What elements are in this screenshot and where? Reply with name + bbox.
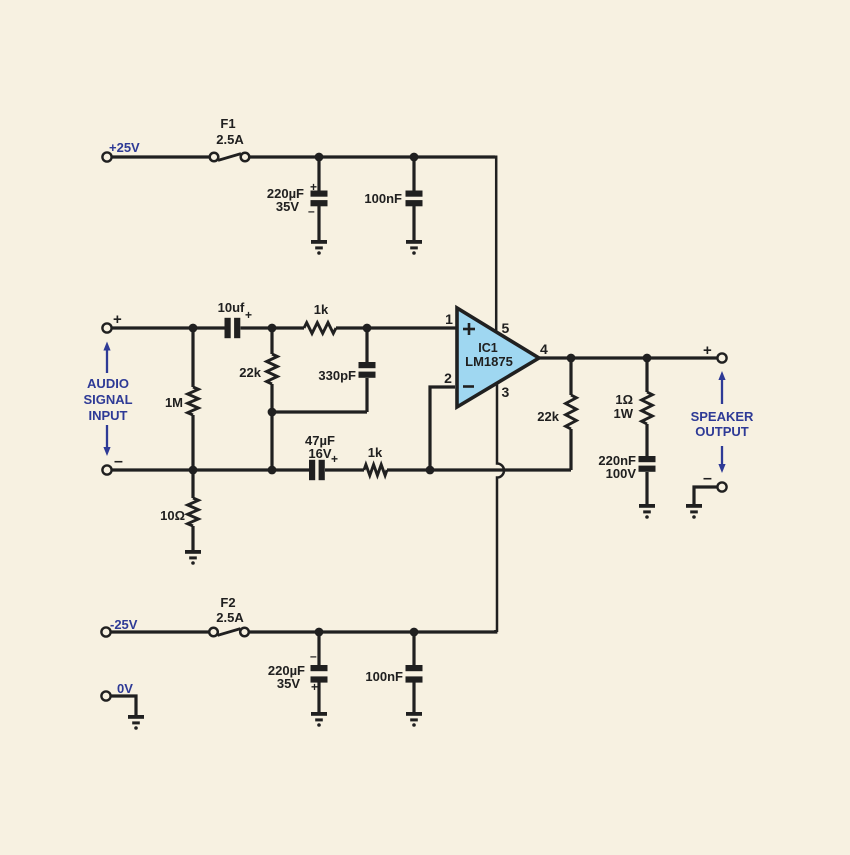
wire input- to C5: [112, 468, 309, 471]
svg-text:+: +: [113, 311, 122, 328]
ground below R7: [185, 550, 201, 565]
junction input-/R7: [189, 466, 198, 475]
junction pin2 node: [426, 466, 435, 475]
svg-text:+: +: [331, 452, 338, 466]
capacitor C7 220uF 35V: [311, 665, 328, 683]
junction bottom rail / C7: [315, 628, 324, 637]
wire R7 top lead: [191, 470, 194, 498]
svg-text:IC1: IC1: [478, 341, 498, 355]
ground below speaker -: [686, 504, 702, 519]
svg-text:INPUT: INPUT: [89, 408, 128, 423]
svg-text:22k: 22k: [537, 409, 559, 424]
terminal 0V: [101, 691, 110, 700]
junction C3/R3: [268, 324, 277, 333]
input + mark: [113, 311, 122, 328]
svg-text:4: 4: [540, 341, 548, 357]
C3 polarity mark: [245, 308, 252, 322]
fuse F2 value label: [216, 595, 244, 625]
pin 5 label: [502, 320, 510, 336]
fuse F2: [209, 628, 249, 637]
capacitor C2 100nF: [406, 191, 423, 207]
wire C5 to R4: [325, 468, 364, 471]
junction R2/C4: [363, 324, 372, 333]
R1 value label 1M: [165, 395, 183, 410]
node SPEAKER OUTPUT label: [691, 409, 754, 439]
junction top rail / C2: [410, 153, 419, 162]
capacitor C6 220nF 100V: [639, 456, 656, 472]
svg-text:100nF: 100nF: [364, 191, 402, 206]
resistor R5 22k feedback: [566, 358, 577, 470]
svg-text:+: +: [310, 180, 317, 194]
svg-text:1k: 1k: [314, 302, 329, 317]
terminal speaker -: [717, 482, 726, 491]
wire speaker - to ground: [694, 487, 717, 504]
wire C4 bottom lead: [365, 378, 368, 412]
svg-text:-25V: -25V: [110, 617, 138, 632]
svg-text:3: 3: [502, 384, 510, 400]
wire R1 bottom lead: [191, 415, 194, 470]
svg-text:+25V: +25V: [109, 140, 140, 155]
terminal speaker +: [717, 353, 726, 362]
svg-text:330pF: 330pF: [318, 368, 356, 383]
svg-text:0V: 0V: [117, 681, 133, 696]
R5 value label 22k: [537, 409, 559, 424]
junction bottom rail / C8: [410, 628, 419, 637]
svg-text:–: –: [114, 453, 123, 470]
C1 polarity marks: [308, 180, 317, 218]
wire pin2 node up to pin 2: [430, 387, 455, 470]
svg-text:F1: F1: [220, 116, 235, 131]
wire R1 top lead: [191, 328, 194, 387]
wire R2 to pin 1: [336, 326, 456, 329]
wire C6 bottom lead: [645, 472, 648, 504]
node 0V label: [117, 681, 133, 696]
speaker - mark: [703, 470, 712, 487]
pin 1 label: [445, 311, 453, 327]
svg-text:22k: 22k: [239, 365, 261, 380]
fuse F1: [210, 153, 250, 162]
svg-text:16V: 16V: [308, 446, 331, 461]
IC1 reference label: [465, 341, 513, 369]
wire C3 to R2: [241, 326, 305, 329]
wire R3 top lead: [270, 328, 273, 354]
wire C4 top lead: [365, 328, 368, 363]
svg-text:1M: 1M: [165, 395, 183, 410]
capacitor C1 220uF 35V: [311, 191, 328, 207]
wire F1 to pin5 corner: [250, 155, 496, 158]
svg-text:AUDIO: AUDIO: [87, 376, 129, 391]
wire 0V to ground: [111, 696, 136, 716]
pin 4 label: [540, 341, 548, 357]
terminal input -: [102, 465, 111, 474]
svg-text:+: +: [245, 308, 252, 322]
wire C8 top lead: [412, 632, 415, 666]
resistor R3 22k: [267, 354, 278, 384]
capacitor C8 100nF: [406, 665, 423, 683]
resistor R7 10ohm: [188, 498, 199, 526]
capacitor C4 330pF: [359, 362, 376, 378]
wire V+ supply down to pin 5: [495, 156, 498, 332]
C5 polarity mark: [331, 452, 338, 466]
speaker output arrows: [718, 371, 725, 473]
node AUDIO SIGNAL INPUT label: [83, 376, 132, 423]
node -25V label: [110, 617, 138, 632]
wire input+ to C3: [112, 326, 225, 329]
junction input-/R3: [268, 466, 277, 475]
svg-text:LM1875: LM1875: [465, 354, 513, 369]
svg-text:10Ω: 10Ω: [160, 508, 185, 523]
ground below C6: [639, 504, 655, 519]
svg-text:2: 2: [444, 370, 452, 386]
wire V- supply pin 3 down with hop: [497, 384, 504, 632]
fuse F1 value label: [216, 116, 244, 147]
resistor R4 1k: [364, 465, 387, 476]
C2 value label 100nF: [364, 191, 402, 206]
svg-text:1k: 1k: [368, 445, 383, 460]
pin 3 label: [502, 384, 510, 400]
resistor R6 1ohm 1W: [642, 358, 653, 457]
svg-text:2.5A: 2.5A: [216, 132, 244, 147]
wire C2 bottom lead: [412, 206, 415, 240]
svg-text:+: +: [311, 680, 318, 694]
wire C7 top lead: [317, 632, 320, 666]
junction R3/C4 bottom: [268, 408, 277, 417]
terminal -25V: [101, 627, 110, 636]
wire C8 bottom lead: [412, 682, 415, 712]
svg-text:F2: F2: [220, 595, 235, 610]
svg-text:SPEAKER: SPEAKER: [691, 409, 754, 424]
wire C7 bottom lead: [317, 682, 320, 712]
svg-text:1Ω: 1Ω: [615, 392, 633, 407]
input - mark: [114, 453, 123, 470]
C8 value label 100nF: [365, 669, 403, 684]
capacitor C3 10uf: [225, 318, 241, 338]
ground below C8: [406, 712, 422, 727]
ground below C7: [311, 712, 327, 727]
ground below 0V: [128, 715, 144, 730]
junction top rail / C1: [315, 153, 324, 162]
wire +25V to fuse F1: [112, 155, 210, 158]
wire C2 top lead: [412, 157, 415, 192]
wire F2 to pin3 corner: [249, 630, 496, 632]
svg-text:OUTPUT: OUTPUT: [695, 424, 749, 439]
terminal +25V: [102, 152, 111, 161]
pin 2 label: [444, 370, 452, 386]
op-amp IC1 LM1875: [457, 308, 539, 407]
wire R7 bottom lead: [191, 526, 194, 551]
C5 value label 47uF 16V: [305, 433, 335, 461]
R2 value label 1k: [314, 302, 329, 317]
R7 value label 10ohm: [160, 508, 185, 523]
audio input arrows: [103, 342, 110, 457]
speaker + mark: [703, 342, 712, 359]
svg-text:100nF: 100nF: [365, 669, 403, 684]
ground below C2: [406, 240, 422, 255]
wire R4 to pin2 node: [387, 468, 430, 471]
resistor R1 1M: [188, 387, 199, 415]
svg-text:–: –: [310, 649, 317, 663]
junction output/R5: [567, 354, 576, 363]
resistor R2 1k: [304, 323, 336, 334]
svg-text:2.5A: 2.5A: [216, 610, 244, 625]
svg-text:10uf: 10uf: [218, 300, 245, 315]
capacitor C5 47uF 16V: [309, 460, 325, 480]
node +25V label: [109, 140, 140, 155]
svg-text:SIGNAL: SIGNAL: [83, 392, 132, 407]
svg-text:35V: 35V: [276, 199, 299, 214]
svg-text:1: 1: [445, 311, 453, 327]
wire R3 bottom lead: [270, 384, 273, 470]
C4 value label 330pF: [318, 368, 356, 383]
C1 value label 220uF 35V: [267, 186, 304, 214]
svg-text:+: +: [703, 342, 712, 359]
C6 value label 220nF 100V: [598, 453, 636, 481]
C3 value label 10uf: [218, 300, 245, 315]
R3 value label 22k: [239, 365, 261, 380]
svg-text:35V: 35V: [277, 676, 300, 691]
wire feedback bottom to R5: [430, 468, 571, 471]
junction output/R6: [643, 354, 652, 363]
ground below C1: [311, 240, 327, 255]
R4 value label 1k: [368, 445, 383, 460]
svg-text:–: –: [308, 204, 315, 218]
wire output pin 4 to speaker +: [539, 356, 717, 359]
junction input+/R1: [189, 324, 198, 333]
svg-text:100V: 100V: [606, 466, 637, 481]
svg-text:1W: 1W: [614, 406, 634, 421]
svg-text:–: –: [703, 470, 712, 487]
svg-text:5: 5: [502, 320, 510, 336]
wire -25V to fuse F2: [111, 630, 209, 633]
terminal input +: [102, 323, 111, 332]
R6 value label 1ohm 1W: [614, 392, 634, 421]
C7 value label 220uF 35V: [268, 663, 305, 691]
C7 polarity marks: [310, 649, 318, 694]
wire R3 bottom to C4 bottom: [272, 410, 367, 413]
wire C1 bottom lead: [317, 206, 320, 240]
wire C1 top lead: [317, 157, 320, 192]
